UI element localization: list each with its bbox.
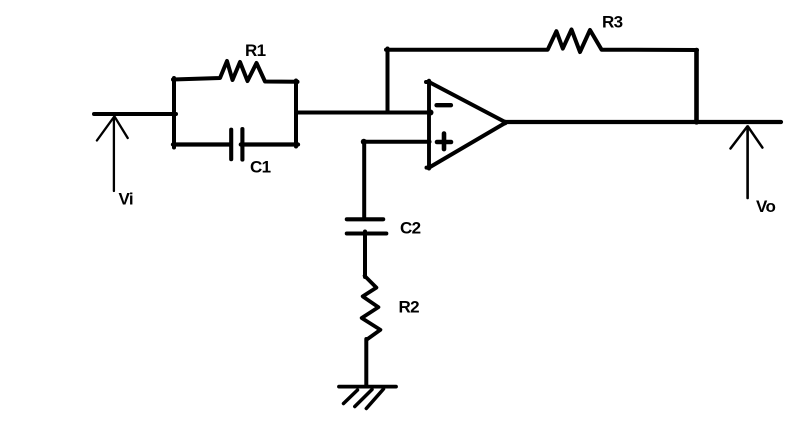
svg-text:C1: C1 bbox=[250, 157, 271, 176]
svg-text:R1: R1 bbox=[245, 41, 266, 60]
svg-text:R2: R2 bbox=[399, 298, 420, 317]
svg-text:R3: R3 bbox=[602, 12, 623, 31]
svg-text:Vi: Vi bbox=[119, 190, 134, 209]
svg-text:Vo: Vo bbox=[756, 197, 775, 216]
svg-text:C2: C2 bbox=[400, 219, 421, 238]
